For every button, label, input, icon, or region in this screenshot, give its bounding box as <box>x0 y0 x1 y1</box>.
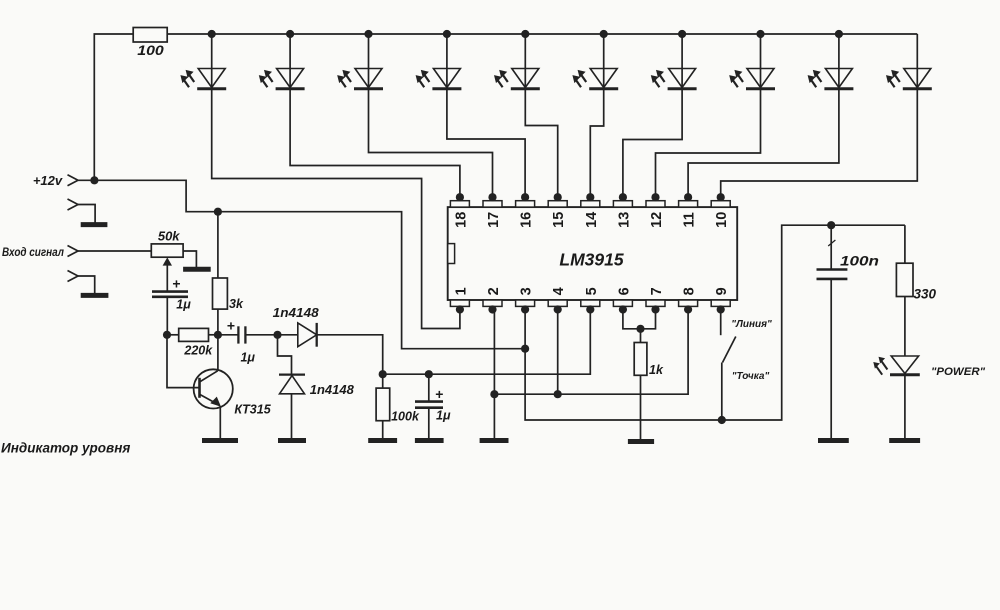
svg-text:7: 7 <box>649 287 665 295</box>
capacitor C2 1μ <box>218 318 278 365</box>
svg-text:2: 2 <box>486 287 502 295</box>
ground (upper input) <box>81 222 108 227</box>
svg-text:1μ: 1μ <box>240 351 255 365</box>
svg-text:"Линия": "Линия" <box>731 319 772 330</box>
svg-text:КТ315: КТ315 <box>234 403 271 417</box>
wire pin 9 to switch <box>720 310 722 336</box>
U1 pin 13 (top) <box>613 193 632 228</box>
wire to lower ground <box>78 276 95 293</box>
LED HL4 <box>416 34 462 89</box>
wire detector node to pin 5 <box>383 310 591 375</box>
wire LED HL3 cathode to pin 16 <box>369 89 493 198</box>
node C3 top <box>425 370 433 378</box>
svg-text:9: 9 <box>714 287 730 295</box>
resistor R2 50k potentiometer <box>151 229 183 266</box>
svg-text:16: 16 <box>519 212 535 228</box>
svg-text:15: 15 <box>551 212 567 228</box>
svg-text:10: 10 <box>714 212 730 228</box>
svg-text:3: 3 <box>519 287 535 295</box>
node +12v input terminal <box>33 173 99 188</box>
wire pin 4 drop <box>557 310 559 395</box>
svg-text:+: + <box>172 276 180 292</box>
capacitor C1 1μ <box>152 276 191 312</box>
node ground terminal lower <box>68 271 79 282</box>
U1 pin 18 (top) <box>450 193 469 228</box>
node signal input terminal <box>2 246 78 260</box>
ground (D2) <box>278 438 306 443</box>
node A <box>163 331 171 339</box>
LED HL8 <box>729 34 775 89</box>
LED HL10 <box>886 34 932 89</box>
U1 pin 7 (bottom) <box>646 287 665 313</box>
node C2/D1/D2 junction <box>273 331 281 339</box>
svg-text:6: 6 <box>616 287 632 295</box>
svg-text:1μ: 1μ <box>176 298 191 312</box>
wire LED HL1 cathode to pin 1 <box>212 89 460 329</box>
node pins 6-7 junction <box>636 325 644 333</box>
resistor R7 330 <box>896 225 936 355</box>
node ground terminal upper <box>68 199 79 210</box>
svg-text:1: 1 <box>453 287 469 295</box>
U1 pin 5 (bottom) <box>581 287 600 313</box>
resistor R6 1k <box>634 329 664 439</box>
svg-text:11: 11 <box>682 212 698 227</box>
wire R2 wiper to C1 <box>166 265 168 292</box>
U1 pin 10 (top) <box>711 193 730 228</box>
capacitor C4 100n <box>817 225 880 438</box>
node detector (D1/R5/C3) <box>379 370 387 378</box>
ground (R2) <box>183 267 211 272</box>
resistor R5 100k <box>376 374 420 438</box>
wire pin 3 V+ run to switch <box>525 225 905 420</box>
wire LED HL7 cathode to pin 13 <box>623 89 682 198</box>
node pin4 junction <box>554 390 562 398</box>
U1 pin 11 (top) <box>679 193 698 227</box>
wire to upper ground <box>78 205 95 223</box>
svg-text:3k: 3k <box>229 297 244 311</box>
LED HL6 <box>572 34 618 89</box>
svg-text:+: + <box>435 386 443 402</box>
resistor R4 3k <box>213 212 244 335</box>
resistor R3 220k <box>167 328 218 357</box>
svg-text:100: 100 <box>137 43 164 58</box>
LED HL9 <box>808 34 854 89</box>
ground (HL11) <box>889 438 920 443</box>
LED HL3 <box>337 34 383 89</box>
node pin3 +12v junction <box>521 345 529 353</box>
U1 pin 4 (bottom) <box>548 287 567 313</box>
ground (C3) <box>415 438 444 443</box>
svg-text:1n4148: 1n4148 <box>273 306 319 320</box>
LED HL1 <box>180 34 226 89</box>
wire LED HL10 cathode to pin 10 <box>721 89 918 198</box>
U1 pin 3 (bottom) <box>516 287 535 313</box>
node switch bottom junction <box>718 416 726 424</box>
ground (Q1 emitter) <box>202 438 238 443</box>
LED HL7 <box>651 34 697 89</box>
wire +12v top rail <box>94 34 917 180</box>
svg-text:17: 17 <box>486 212 502 228</box>
resistor R1 100 <box>133 28 167 59</box>
svg-text:13: 13 <box>616 212 632 228</box>
svg-text:12: 12 <box>649 212 665 228</box>
wire LED HL4 cathode to pin 15 <box>447 89 525 198</box>
svg-text:"POWER": "POWER" <box>931 366 986 378</box>
wire pin 2 to ground <box>493 310 495 439</box>
svg-text:220k: 220k <box>183 344 213 358</box>
node top rail junctions <box>208 30 843 38</box>
svg-text:18: 18 <box>453 212 469 228</box>
ground (pin 2) <box>480 438 509 443</box>
wire LED HL5 cathode to pin 14 <box>525 89 557 198</box>
diode D2 1n4148 <box>278 335 354 438</box>
U1 pin 15 (top) <box>548 193 567 228</box>
svg-text:4: 4 <box>551 287 567 295</box>
svg-text:+: + <box>227 318 235 334</box>
node 100n junction <box>827 221 835 229</box>
ground (C4) <box>818 438 849 443</box>
wire R2 right terminal to ground <box>183 251 196 267</box>
svg-text:+12v: +12v <box>33 173 63 188</box>
svg-text:Вход сигнал: Вход сигнал <box>2 247 64 259</box>
U1 pin 9 (bottom) <box>711 287 730 313</box>
wire pins 6,7 join <box>623 310 656 329</box>
svg-text:100n: 100n <box>840 254 879 269</box>
node B <box>214 331 222 339</box>
svg-text:5: 5 <box>584 287 600 295</box>
switch SA1 mode <box>722 319 772 420</box>
U1 pin 12 (top) <box>646 193 665 228</box>
ground (lower input) <box>81 293 109 298</box>
svg-text:LM3915: LM3915 <box>559 250 623 270</box>
LED HL5 <box>494 34 540 89</box>
U1 pin 14 (top) <box>581 193 600 228</box>
svg-text:1μ: 1μ <box>436 409 451 423</box>
LED HL2 <box>259 34 305 89</box>
svg-text:1n4148: 1n4148 <box>310 383 354 397</box>
U1 pin 17 (top) <box>483 193 502 228</box>
transistor Q1 КТ315 <box>194 369 272 438</box>
svg-text:50k: 50k <box>158 229 180 244</box>
U1 pin 8 (bottom) <box>679 287 698 313</box>
wire LED HL2 cathode to pin 17 <box>290 89 460 198</box>
ground (R5) <box>368 438 397 443</box>
svg-text:14: 14 <box>584 212 600 228</box>
wire ground rail pins 2-4-8 <box>494 310 688 395</box>
wire D1 cathode to 100k node <box>317 335 383 374</box>
U1 index notch <box>448 244 455 264</box>
svg-text:1k: 1k <box>649 363 664 377</box>
node junction 3k top <box>214 208 222 216</box>
wire signal input to R2 <box>78 250 151 252</box>
svg-text:Индикатор уровня: Индикатор уровня <box>1 441 130 456</box>
wire C1 to node A <box>166 297 168 335</box>
op-amp U1 LM3915 body <box>448 207 738 300</box>
U1 pin 2 (bottom) <box>483 287 502 313</box>
U1 pin 16 (top) <box>516 193 535 228</box>
svg-text:"Точка": "Точка" <box>732 371 770 382</box>
wire node A to Q1 base <box>167 335 200 388</box>
wire LED HL9 cathode to pin 11 <box>688 89 839 198</box>
ground (R6) <box>628 439 654 444</box>
wire LED HL8 cathode to pin 12 <box>656 89 761 198</box>
capacitor C3 1μ <box>415 374 451 438</box>
LED HL11 POWER <box>873 356 986 438</box>
diode D1 1n4148 <box>273 306 319 347</box>
node pin2 ground-rail junction <box>490 390 498 398</box>
wire LED HL6 cathode to pin 14 <box>590 89 603 198</box>
U1 pin 6 (bottom) <box>613 287 632 313</box>
svg-text:330: 330 <box>914 287 937 302</box>
wire +12v feed to pin 3 <box>78 180 525 348</box>
svg-text:100k: 100k <box>391 410 420 424</box>
U1 pin 1 (bottom) <box>450 287 469 313</box>
svg-text:8: 8 <box>682 287 698 295</box>
wire node B to Q1 collector <box>217 335 219 370</box>
